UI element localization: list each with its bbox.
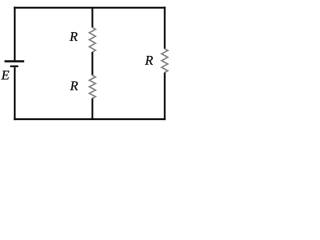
wire right side lower stub	[164, 73, 166, 121]
wire left side lower (from battery)	[14, 67, 16, 120]
battery E long plate	[5, 60, 25, 62]
battery E short plate	[10, 65, 18, 67]
wire bottom side	[14, 118, 166, 120]
label R middle lower	[70, 81, 78, 90]
wire middle branch center stub	[91, 52, 93, 75]
wire top side	[14, 7, 166, 9]
resistor R right	[162, 49, 168, 73]
wire middle branch top stub	[91, 8, 93, 28]
wire middle branch bottom stub	[91, 98, 93, 119]
wire right side upper stub	[164, 7, 166, 49]
resistor R middle upper	[89, 28, 95, 53]
label R right	[145, 56, 153, 65]
label R middle upper	[70, 32, 78, 41]
resistor R middle lower	[89, 75, 95, 98]
wire left side upper (to battery)	[14, 7, 16, 61]
label E	[1, 71, 9, 80]
